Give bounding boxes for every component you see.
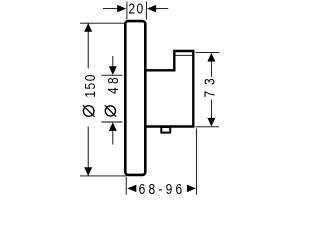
dim 68-96: right arrow	[187, 185, 196, 192]
dim 68-96: left extension line	[125, 177, 127, 195]
svg-text:20: 20	[128, 0, 144, 17]
dim 73: upper line segment	[210, 61, 212, 77]
dim D150: top extension line	[80, 22, 126, 24]
svg-text:68-96: 68-96	[139, 181, 186, 198]
dim 20: right tail	[156, 8, 168, 10]
svg-text:73: 73	[201, 72, 218, 97]
dim D150: bottom arrow	[84, 167, 92, 176]
dim D48: top arrow	[109, 66, 117, 75]
dim D48: top tick	[101, 74, 122, 76]
dim D48: top tail	[112, 56, 114, 67]
dim D150: top arrow	[84, 23, 92, 32]
valve body outline	[145, 51, 194, 127]
retainer tab	[161, 127, 170, 133]
dim D150: bottom extension line	[80, 175, 127, 177]
dim D150: upper line segment	[87, 23, 89, 68]
dim D48: bottom tick	[101, 121, 122, 123]
svg-text:48: 48	[105, 74, 122, 94]
dim 20: left extension line	[126, 2, 128, 20]
dim D48: bottom arrow	[109, 122, 117, 131]
dim 73: top arrow	[207, 53, 215, 62]
dim 68-96: left arrow	[127, 185, 136, 192]
escutcheon plate (side view)	[125, 21, 145, 175]
dim 20: left tail	[103, 8, 118, 10]
dim 20: right arrow	[147, 5, 156, 12]
dim 73: top tick	[196, 52, 220, 54]
dim D150: lower line segment	[87, 127, 89, 176]
dim 20: left arrow	[117, 5, 126, 12]
dim 73: bottom tick	[196, 126, 220, 128]
dim 68-96: right extension line	[196, 128, 198, 194]
dim D48: diameter symbol	[105, 106, 115, 116]
svg-text:150: 150	[82, 73, 99, 98]
dim 73: bottom arrow	[207, 118, 215, 127]
dim 73: lower line segment	[210, 100, 212, 119]
dim 20: right extension line	[145, 2, 147, 20]
dim D150: diameter symbol	[83, 106, 94, 117]
stem cap line	[175, 54, 192, 56]
dim D48: bottom tail	[112, 131, 114, 145]
